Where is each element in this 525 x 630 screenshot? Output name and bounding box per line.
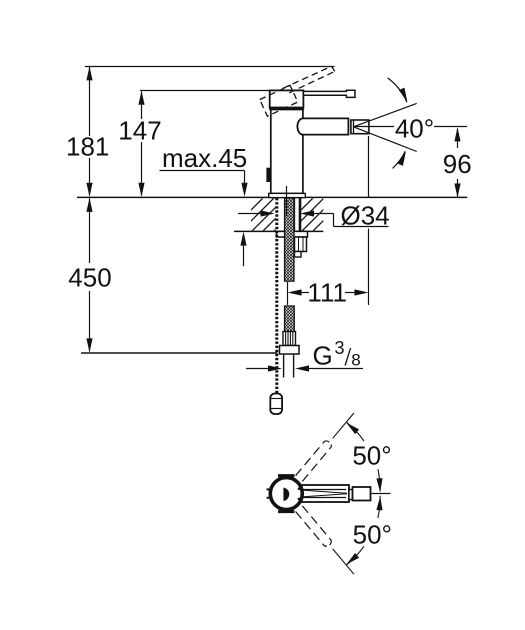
svg-text:G: G xyxy=(313,341,333,371)
svg-text:Ø34: Ø34 xyxy=(341,200,390,230)
svg-text:50°: 50° xyxy=(353,520,392,550)
svg-text:181: 181 xyxy=(66,132,109,162)
svg-text:147: 147 xyxy=(118,116,161,146)
svg-text:40°: 40° xyxy=(395,114,434,144)
svg-text:max.45: max.45 xyxy=(162,143,247,173)
svg-text:8: 8 xyxy=(351,350,360,369)
svg-text:3: 3 xyxy=(335,338,345,358)
svg-text:96: 96 xyxy=(443,149,472,179)
svg-text:50°: 50° xyxy=(352,440,391,470)
svg-text:450: 450 xyxy=(68,263,111,293)
svg-text:111: 111 xyxy=(307,277,347,307)
